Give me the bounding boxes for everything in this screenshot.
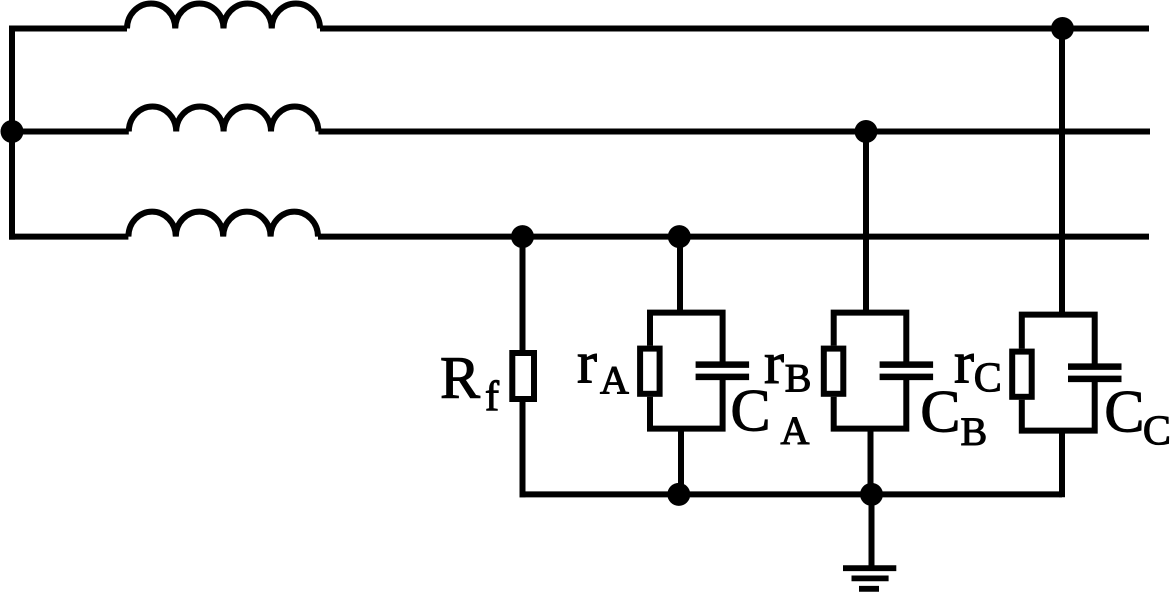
node dot phase A / branch C junction [1051,17,1074,40]
resistor rA [640,349,660,394]
node dot phase B / branch B junction [855,120,878,143]
node parallel box B frame [831,310,910,429]
svg-text:f: f [485,374,499,420]
wire Rf branch upper lead [520,237,526,353]
svg-text:B: B [961,409,988,454]
svg-text:r: r [954,330,974,396]
svg-text:C: C [1104,379,1144,445]
inductor LC [128,212,318,237]
ground bar 2 [852,576,889,582]
svg-text:r: r [577,330,597,396]
inductor LA [127,3,320,28]
svg-text:A: A [600,358,629,403]
node dot phase C / branch A junction [668,225,691,248]
node dot bus / branch A junction [667,483,690,506]
wire phase C left segment [9,234,128,240]
svg-text:B: B [785,356,812,401]
capacitor CC plates [1068,367,1122,379]
wire branch B bottom lead [868,429,874,495]
ground bar 1 [843,565,896,571]
capacitor CB plates [880,365,934,377]
inductor LB [129,106,319,131]
node dot bus / ground junction [860,483,883,506]
capacitor CA plates [696,365,750,377]
wire phase B left segment [9,129,129,135]
wire branch B top lead [863,132,869,313]
wire branch C top lead [1059,29,1065,315]
node parallel box A frame [647,310,726,429]
resistor rB [824,349,844,394]
wire branch A top lead [677,237,683,313]
wire phase A top line [320,26,1149,32]
svg-text:R: R [440,345,480,411]
resistor Rf [512,353,534,399]
svg-text:C: C [974,356,1002,402]
wire branch C bottom lead [1059,431,1065,498]
wire ground bus [520,491,1063,497]
resistor rC [1012,352,1031,397]
svg-text:A: A [781,408,810,453]
wire left vertical bus [9,26,15,240]
wire phase B middle line right segment [318,129,1150,135]
wire phase C bottom line right segment [318,234,1149,240]
ground bar 3 [859,586,879,592]
node dot phase C / Rf junction [511,225,534,248]
svg-text:C: C [1143,409,1171,455]
svg-text:r: r [764,330,784,396]
wire phase A left segment [12,26,127,32]
ground stem [869,494,875,566]
wire Rf branch lower lead [520,399,526,497]
node dot left phase B junction [1,120,24,143]
wire branch A bottom lead [678,429,684,495]
node parallel box C frame [1019,312,1098,431]
